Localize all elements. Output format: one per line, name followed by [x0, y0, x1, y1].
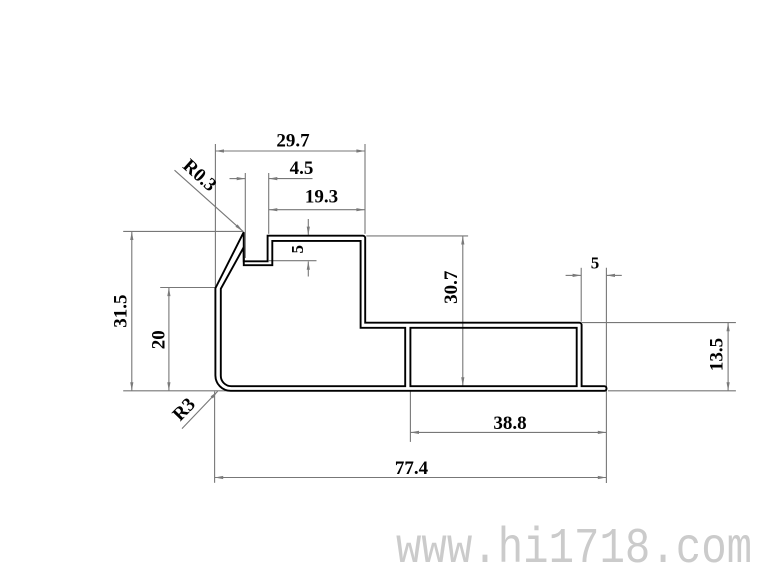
- svg-text:13.5: 13.5: [707, 338, 728, 371]
- svg-text:4.5: 4.5: [290, 158, 314, 179]
- svg-text:5: 5: [288, 245, 307, 254]
- svg-text:20: 20: [148, 330, 169, 349]
- svg-text:19.3: 19.3: [305, 187, 338, 208]
- svg-text:5: 5: [591, 254, 600, 273]
- svg-text:30.7: 30.7: [441, 270, 462, 304]
- svg-text:29.7: 29.7: [276, 130, 310, 151]
- svg-text:31.5: 31.5: [110, 294, 131, 327]
- svg-text:77.4: 77.4: [395, 458, 429, 479]
- svg-text:38.8: 38.8: [493, 413, 526, 434]
- svg-text:www.hi1718.com: www.hi1718.com: [396, 520, 752, 577]
